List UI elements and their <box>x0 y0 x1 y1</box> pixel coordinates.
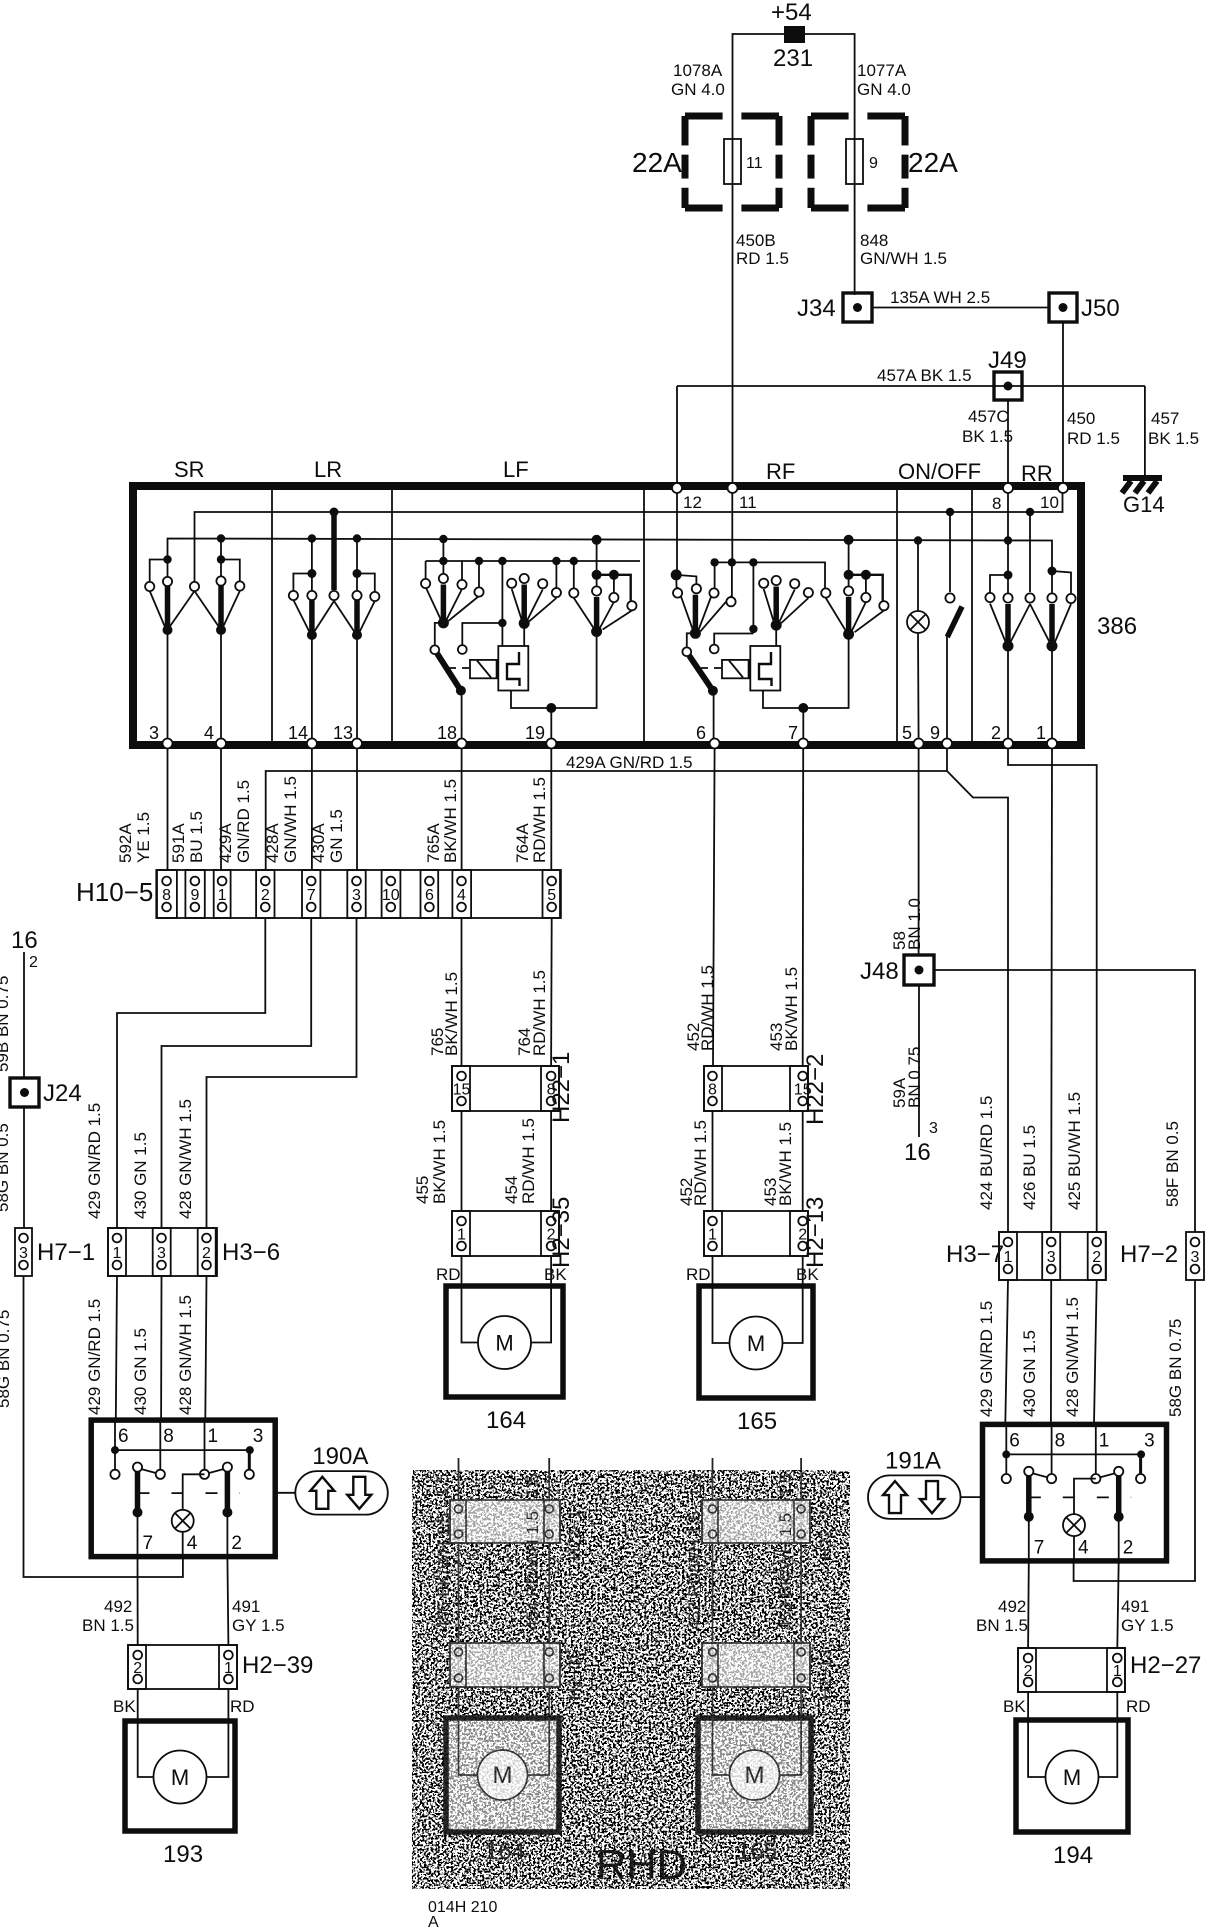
RR right cluster (pin 1) <box>1048 567 1057 576</box>
svg-text:492: 492 <box>998 1597 1026 1616</box>
svg-text:M: M <box>1063 1765 1081 1790</box>
svg-text:15: 15 <box>453 1082 471 1099</box>
svg-text:8: 8 <box>162 887 171 904</box>
svg-text:J34: J34 <box>797 295 836 322</box>
svg-text:1: 1 <box>218 887 227 904</box>
LR switch cluster pin 14 <box>308 534 316 542</box>
wire 452 RD/WH 1.5 lower <box>712 1111 714 1211</box>
svg-text:1077A: 1077A <box>857 61 907 80</box>
svg-text:7: 7 <box>307 887 316 904</box>
svg-text:164: 164 <box>486 1407 526 1434</box>
cluster A circles <box>421 579 430 588</box>
svg-text:591A: 591A <box>169 823 188 863</box>
line y=561 bus3 with bracket <box>426 560 640 562</box>
connector H2-39 <box>128 1645 237 1689</box>
pin 10 terminal <box>1058 483 1068 493</box>
svg-text:H10−5: H10−5 <box>76 877 153 907</box>
wire from 231 to left fuse (1078A GN 4.0) <box>733 34 785 139</box>
svg-text:3: 3 <box>19 1245 28 1262</box>
RR contact circles <box>985 593 994 602</box>
junction J24 <box>10 1078 39 1107</box>
svg-text:1.5: 1.5 <box>686 1473 705 1497</box>
bottom terminal circle <box>546 739 556 749</box>
190A mech link dashes <box>138 1492 240 1494</box>
svg-text:BN 1.0: BN 1.0 <box>905 898 924 950</box>
svg-text:13: 13 <box>333 723 353 743</box>
svg-text:1: 1 <box>708 1227 717 1244</box>
svg-text:BK: BK <box>544 1265 567 1284</box>
ground G14 symbol <box>1123 475 1162 481</box>
svg-text:9: 9 <box>869 155 878 172</box>
svg-text:7: 7 <box>788 723 798 743</box>
svg-text:H2−35: H2−35 <box>548 1197 575 1268</box>
svg-text:8: 8 <box>1055 1430 1066 1451</box>
wire H3-7 pin3 to 191A pin8 <box>1050 1280 1052 1424</box>
ghost connector H2-35 (RHD) <box>450 1643 560 1687</box>
svg-text:2: 2 <box>261 887 270 904</box>
motor M circle 164 <box>478 1316 531 1369</box>
SR switch cluster pin 4 <box>217 534 225 542</box>
svg-text:11: 11 <box>739 493 757 512</box>
H10-5 cell 6 <box>421 870 439 918</box>
lamp to pin 5 <box>917 633 920 741</box>
svg-text:J50: J50 <box>1081 295 1120 322</box>
breaker output to pins <box>511 632 597 708</box>
svg-text:H22−1: H22−1 <box>548 1052 575 1123</box>
svg-text:GN/WH 1.5: GN/WH 1.5 <box>281 776 300 863</box>
wire 491 GY 1.5 (191A pin2) <box>1117 1561 1118 1648</box>
190A oval with arrows <box>295 1471 388 1515</box>
cluster A bar and contacts <box>441 585 447 622</box>
switch unit 386 outline <box>133 486 1081 745</box>
ghost connector H22-1 (RHD) <box>450 1500 560 1543</box>
svg-text:428A: 428A <box>263 823 282 863</box>
svg-text:58G BN 0.5: 58G BN 0.5 <box>0 1123 12 1212</box>
svg-text:450B: 450B <box>736 231 776 250</box>
svg-text:3: 3 <box>149 723 159 743</box>
svg-text:428 GN/WH 1.5: 428 GN/WH 1.5 <box>176 1295 195 1415</box>
svg-text:8: 8 <box>992 494 1001 513</box>
svg-text:GN 4.0: GN 4.0 <box>857 80 911 99</box>
svg-text:LF: LF <box>503 457 529 482</box>
connector H10-5 <box>157 870 560 918</box>
wire H3-6 pin1 to 190A pin6 <box>116 1276 117 1420</box>
ghost wires right column <box>712 1472 714 1718</box>
svg-text:1: 1 <box>1004 1249 1013 1266</box>
svg-text:492: 492 <box>104 1597 132 1616</box>
svg-text:8: 8 <box>708 1082 717 1099</box>
svg-text:RD: RD <box>1126 1697 1151 1716</box>
svg-text:1: 1 <box>1036 723 1046 743</box>
wire 58G BN 0.75 right (H7-2 to 191A lamp) <box>1074 1280 1195 1581</box>
ghost motor 165 (RHD) <box>698 1718 811 1832</box>
svg-text:135A WH 2.5: 135A WH 2.5 <box>890 288 990 307</box>
svg-text:M: M <box>745 1762 765 1789</box>
191A contact stems <box>1005 1454 1007 1473</box>
svg-text:165: 165 <box>737 1408 777 1435</box>
wire 453 BK/WH 1.5 (pin7 to H22-2) <box>802 749 805 1066</box>
wire H3-7 pin1 to 191A pin6 <box>1005 1280 1008 1424</box>
wire 457A BK 1.5 horizontal <box>677 385 1145 387</box>
connector H3-7 <box>999 1232 1106 1280</box>
wire to motor 193 right <box>227 1689 229 1721</box>
wire pin4 to H10-5 cell 1 <box>220 749 222 870</box>
svg-text:450: 450 <box>1067 409 1095 428</box>
wire RD to motor 165 <box>712 1256 714 1286</box>
H10-5 cell 5 <box>543 870 561 918</box>
svg-text:H2−13: H2−13 <box>802 1197 829 1268</box>
svg-text:428 GN/WH 1.5: 428 GN/WH 1.5 <box>1063 1297 1082 1417</box>
svg-text:193: 193 <box>163 1841 203 1868</box>
svg-text:4: 4 <box>1078 1537 1089 1558</box>
svg-text:RD/WH 1.5: RD/WH 1.5 <box>519 1118 538 1204</box>
svg-text:RD 1.5: RD 1.5 <box>736 249 789 268</box>
bottom terminal circle <box>710 739 720 749</box>
bus 2 inside 386 <box>168 539 1053 572</box>
svg-text:457A BK 1.5: 457A BK 1.5 <box>877 366 972 385</box>
fuse 22A #11 (left) dashed box <box>685 113 723 120</box>
bottom terminal circle <box>163 739 173 749</box>
wire pin18 to H10-5 cell 4 <box>461 749 463 870</box>
ghost motor 164 (RHD) <box>446 1718 559 1832</box>
svg-text:BK: BK <box>113 1697 136 1716</box>
motor box 194 <box>1016 1720 1128 1832</box>
RR left cluster (pin 2) <box>1004 571 1013 580</box>
fuse element 11 <box>732 139 734 184</box>
motor leads 165 <box>713 1286 730 1343</box>
svg-text:7: 7 <box>143 1533 154 1554</box>
wire 450 RD 1.5 J50 down to box pin 10 <box>1062 322 1064 486</box>
svg-text:RD/WH 1.5: RD/WH 1.5 <box>691 1120 710 1206</box>
RR pin 8 wire <box>1007 490 1009 572</box>
svg-text:6: 6 <box>696 723 706 743</box>
wire 492 BN 1.5 (190A pin7) <box>137 1557 139 1645</box>
svg-text:3: 3 <box>253 1426 264 1447</box>
ON/OFF switch contact <box>946 508 954 516</box>
191A rocker output wires <box>1028 1517 1030 1561</box>
wire 450B RD 1.5 from fuse 11 to box pin 11 <box>732 184 734 489</box>
svg-text:YE 1.5: YE 1.5 <box>134 812 153 863</box>
wire 58 BN 1.0 (pin5 to J48) <box>918 749 920 955</box>
190A rockers <box>135 1471 141 1511</box>
svg-text:H2−27: H2−27 <box>1130 1652 1201 1679</box>
svg-text:2: 2 <box>133 1660 142 1677</box>
svg-text:BK/WH 1.5: BK/WH 1.5 <box>442 972 461 1056</box>
wire 59A BN 0.75 to off-page 16-3 <box>918 985 920 1137</box>
wire cluster B to breaker <box>775 625 777 646</box>
pin 11 wire inside RF <box>731 490 733 562</box>
RHD variant shaded block <box>412 1458 850 1889</box>
svg-text:1.5: 1.5 <box>523 1473 542 1497</box>
LR bus1 junction with thick drop <box>330 508 339 517</box>
svg-text:J48: J48 <box>860 958 899 985</box>
wire 429A GN/RD 1.5 bus <box>266 771 948 870</box>
motor M circle 193 <box>154 1751 207 1804</box>
191A lamp <box>1063 1514 1085 1536</box>
cluster C bar and contacts <box>594 597 600 631</box>
junction J34 <box>843 293 872 322</box>
wire to motor 194 left <box>1027 1692 1029 1720</box>
svg-text:M: M <box>171 1765 189 1790</box>
wire to motor 193 left <box>137 1689 139 1721</box>
motor M circle 165 <box>730 1317 783 1370</box>
svg-text:H2−13: H2−13 <box>816 1649 835 1700</box>
svg-text:457C: 457C <box>968 407 1009 426</box>
svg-text:4: 4 <box>187 1533 198 1554</box>
svg-text:4: 4 <box>457 887 466 904</box>
svg-text:16: 16 <box>11 927 38 954</box>
svg-text:H2−39: H2−39 <box>242 1652 313 1679</box>
svg-text:2: 2 <box>231 1533 242 1554</box>
svg-text:3: 3 <box>1144 1430 1155 1451</box>
thermal breaker <box>498 646 528 691</box>
svg-text:1: 1 <box>1113 1663 1122 1680</box>
svg-text:2: 2 <box>202 1245 211 1262</box>
wire 764 RD/WH 1.5 (cell5 to H22-1 pin8) <box>550 918 553 1066</box>
junction J50 <box>1049 293 1077 322</box>
wire 135A WH 2.5 from J34 to J50 <box>872 307 1049 309</box>
wire H3-7 pin2 to 191A pin1 <box>1094 1280 1097 1424</box>
svg-text:9: 9 <box>930 723 940 743</box>
section divider RF/ON-OFF <box>896 490 898 741</box>
svg-text:429A: 429A <box>216 823 235 863</box>
window switch 190A box <box>91 1420 275 1557</box>
section divider LF/RF <box>643 490 645 741</box>
svg-text:GN 1.5: GN 1.5 <box>327 809 346 863</box>
wire 429 H10-5 cell2 to H3-6 pin1 <box>117 918 265 1228</box>
svg-text:22A: 22A <box>908 147 958 178</box>
connector H3-6 <box>108 1228 217 1276</box>
svg-text:BK 1.5: BK 1.5 <box>1148 429 1199 448</box>
H10-5 cell 7 <box>302 870 320 918</box>
svg-text:6: 6 <box>1009 1430 1020 1451</box>
bottom terminal circle <box>216 739 226 749</box>
SR contact circles <box>145 582 154 591</box>
svg-text:11: 11 <box>746 155 763 172</box>
svg-text:2: 2 <box>1092 1249 1101 1266</box>
svg-text:429 GN/RD 1.5: 429 GN/RD 1.5 <box>977 1301 996 1417</box>
hanging contact circle <box>462 623 502 645</box>
wire 424: pin9 via diagonal to H3-7 pin1 <box>947 749 1008 1232</box>
svg-text:GN/WH 1.5: GN/WH 1.5 <box>860 249 947 268</box>
lever switch to pin 18 <box>435 623 444 645</box>
motor M circle 194 <box>1046 1751 1099 1804</box>
H10-5 cell 2 <box>256 870 274 918</box>
svg-text:1: 1 <box>1099 1430 1110 1451</box>
svg-text:1.5: 1.5 <box>776 1473 795 1497</box>
wire SR bottom dot to pin 4 <box>220 630 222 741</box>
bottom terminal circle <box>1003 739 1013 749</box>
svg-text:H3−6: H3−6 <box>222 1239 280 1266</box>
svg-text:GY 1.5: GY 1.5 <box>1121 1616 1174 1635</box>
connector H22-2 <box>704 1066 808 1111</box>
cluster C bracket <box>844 570 854 580</box>
191A top pin wires <box>1005 1424 1007 1454</box>
svg-text:428 GN/WH 1.5: 428 GN/WH 1.5 <box>176 1099 195 1219</box>
svg-text:1: 1 <box>113 1245 122 1262</box>
wire SR bottom dot to pin 3 <box>167 630 169 741</box>
svg-text:58G BN 0.75: 58G BN 0.75 <box>1166 1319 1185 1417</box>
svg-text:LR: LR <box>314 457 342 482</box>
svg-text:BK/WH 1.5: BK/WH 1.5 <box>776 1122 795 1206</box>
svg-text:SR: SR <box>174 457 205 482</box>
wire 765 BK/WH 1.5 (cell4 to H22-1 pin15) <box>461 918 463 1066</box>
svg-text:M: M <box>495 1331 513 1356</box>
svg-text:M: M <box>493 1762 513 1789</box>
svg-text:1: 1 <box>208 1426 219 1447</box>
wire 428 H10-5 cell3 to H3-6 pin2 <box>207 918 357 1228</box>
cluster C bracket <box>592 570 602 580</box>
svg-text:RD: RD <box>686 1265 711 1284</box>
J48 horizontal wire to 58F <box>934 970 1195 1232</box>
wire pin19 to H10-5 cell 5 <box>550 749 552 870</box>
svg-text:386: 386 <box>1097 613 1137 640</box>
svg-text:8: 8 <box>163 1426 174 1447</box>
ghost stubs entering block <box>458 1458 460 1472</box>
fuse element 9 <box>854 139 856 184</box>
svg-text:165: 165 <box>737 1838 777 1865</box>
pin 11 terminal <box>728 483 738 493</box>
bottom terminal circle <box>352 739 362 749</box>
svg-text:ON/OFF: ON/OFF <box>898 459 981 484</box>
pin 12 terminal <box>672 483 682 493</box>
svg-text:1078A: 1078A <box>673 61 723 80</box>
wire 848 GN/WH 1.5 from fuse 9 to J34 <box>854 184 856 295</box>
svg-text:18: 18 <box>437 723 457 743</box>
191A internal bus <box>1006 1453 1141 1455</box>
svg-text:H2−35: H2−35 <box>565 1649 584 1700</box>
svg-text:429 GN/RD 1.5: 429 GN/RD 1.5 <box>85 1103 104 1219</box>
wire 457 BK 1.5 right branch down to ground G14 <box>1144 386 1146 476</box>
svg-text:424 BU/RD 1.5: 424 BU/RD 1.5 <box>977 1096 996 1210</box>
indicator lamp <box>907 611 929 633</box>
svg-text:14: 14 <box>288 723 308 743</box>
wire LR to pin 13 <box>356 635 358 741</box>
ON/OFF lamp feed <box>914 536 922 544</box>
wire 453 BK/WH 1.5 lower <box>802 1111 804 1211</box>
svg-text:M: M <box>747 1331 765 1356</box>
svg-text:3: 3 <box>1047 1249 1056 1266</box>
window switch 191A box <box>983 1424 1167 1561</box>
svg-text:G14: G14 <box>1123 492 1165 517</box>
section divider LR/LF <box>391 490 393 741</box>
svg-text:10: 10 <box>382 887 400 904</box>
svg-text:RD: RD <box>436 1265 461 1284</box>
mechanical link dashes <box>449 667 470 669</box>
connector H2-13 <box>704 1211 808 1256</box>
svg-text:BU 1.5: BU 1.5 <box>187 811 206 863</box>
svg-text:BN 1.5: BN 1.5 <box>82 1616 134 1635</box>
svg-text:194: 194 <box>1053 1842 1093 1869</box>
svg-text:231: 231 <box>773 45 813 72</box>
H10-5 cell 4 <box>452 870 471 918</box>
H10-5 cell 8 <box>156 870 177 918</box>
wire 455 BK/WH 1.5 <box>461 1111 463 1211</box>
svg-text:J49: J49 <box>988 347 1027 374</box>
bottom terminal circle <box>1047 739 1057 749</box>
svg-text:452 RD/WH 1.5: 452 RD/WH 1.5 <box>685 1511 704 1630</box>
svg-text:H3−7: H3−7 <box>946 1241 1004 1268</box>
mechanical link dashes <box>701 667 722 669</box>
thermal breaker <box>750 646 780 691</box>
svg-text:RD/WH 1.5: RD/WH 1.5 <box>530 970 549 1056</box>
wire pin14 to H10-5 cell 7 <box>311 749 313 870</box>
wire pin3 to H10-5 cell 8 <box>167 749 169 870</box>
svg-text:RR: RR <box>1021 461 1053 486</box>
190A contact stems <box>114 1450 116 1469</box>
cluster C feed stem <box>844 535 854 545</box>
svg-text:453 BK/WH 1.5: 453 BK/WH 1.5 <box>776 1513 795 1630</box>
svg-text:426 BU 1.5: 426 BU 1.5 <box>1020 1125 1039 1210</box>
wire 457C BK 1.5 J49 down to box pin 8 <box>1007 400 1009 486</box>
ghost connector H22-2 (RHD) <box>702 1500 810 1543</box>
wire 430 H10-5 cell7 to H3-6 pin3 <box>162 918 312 1228</box>
190A contact circles <box>110 1470 119 1479</box>
svg-text:H22−2: H22−2 <box>816 1509 835 1560</box>
svg-text:2: 2 <box>991 723 1001 743</box>
svg-text:12: 12 <box>683 493 702 512</box>
svg-text:22A: 22A <box>632 147 682 178</box>
svg-text:RF: RF <box>766 459 795 484</box>
svg-text:1.5: 1.5 <box>433 1473 452 1497</box>
bus 1 inside 386 <box>195 490 1063 587</box>
wire BK to motor 165 <box>802 1256 804 1286</box>
ghost connector H2-13 (RHD) <box>702 1643 810 1687</box>
svg-text:9: 9 <box>190 887 199 904</box>
svg-text:A: A <box>428 1914 439 1928</box>
bottom terminal circle <box>798 739 808 749</box>
191A rockers <box>1026 1475 1032 1515</box>
wire 491 GY 1.5 (190A pin2) <box>227 1557 228 1645</box>
wire 492 BN 1.5 (191A pin7) <box>1027 1561 1030 1648</box>
RR shared contact feed <box>1026 508 1034 516</box>
motor leads 193 <box>138 1721 154 1777</box>
svg-text:H7−2: H7−2 <box>1120 1241 1178 1268</box>
svg-text:GY 1.5: GY 1.5 <box>232 1616 285 1635</box>
section divider ON-OFF/RR <box>971 490 973 741</box>
connector H2-35 <box>452 1211 559 1256</box>
SR switch cluster pin 3 <box>163 555 171 563</box>
svg-text:GN 4.0: GN 4.0 <box>671 80 725 99</box>
lever to pin 9 <box>946 636 948 741</box>
hanging contact circle <box>710 645 719 654</box>
191A contact circles <box>1002 1474 1011 1483</box>
wire 425: RR pin2 jog to H3-7 pin2 <box>1008 749 1097 1232</box>
svg-text:430 GN 1.5: 430 GN 1.5 <box>131 1328 150 1415</box>
connector H2-27 <box>1018 1648 1125 1692</box>
svg-text:430A: 430A <box>309 823 328 863</box>
svg-text:10: 10 <box>1040 493 1059 512</box>
svg-text:491: 491 <box>1121 1597 1149 1616</box>
svg-text:457: 457 <box>1151 409 1179 428</box>
pin 8 terminal <box>1003 483 1013 493</box>
svg-text:454 RD/WH 1.5: 454 RD/WH 1.5 <box>523 1511 542 1630</box>
svg-text:4: 4 <box>204 723 214 743</box>
svg-text:RHD: RHD <box>596 1841 687 1888</box>
svg-text:592A: 592A <box>116 823 135 863</box>
svg-text:16: 16 <box>904 1139 931 1166</box>
terminal 231 (black square) <box>784 26 805 43</box>
wire 59B BN 0.75 <box>23 952 25 1078</box>
bottom terminal circle <box>307 739 317 749</box>
motor box 165 <box>699 1286 813 1398</box>
pin 12 wire inside RF <box>676 490 678 572</box>
svg-text:190A: 190A <box>312 1443 368 1470</box>
H10-5 cell 10 <box>382 870 401 918</box>
ghost wires left column <box>458 1472 460 1718</box>
LR contact circles <box>289 591 298 600</box>
svg-text:3: 3 <box>352 887 361 904</box>
